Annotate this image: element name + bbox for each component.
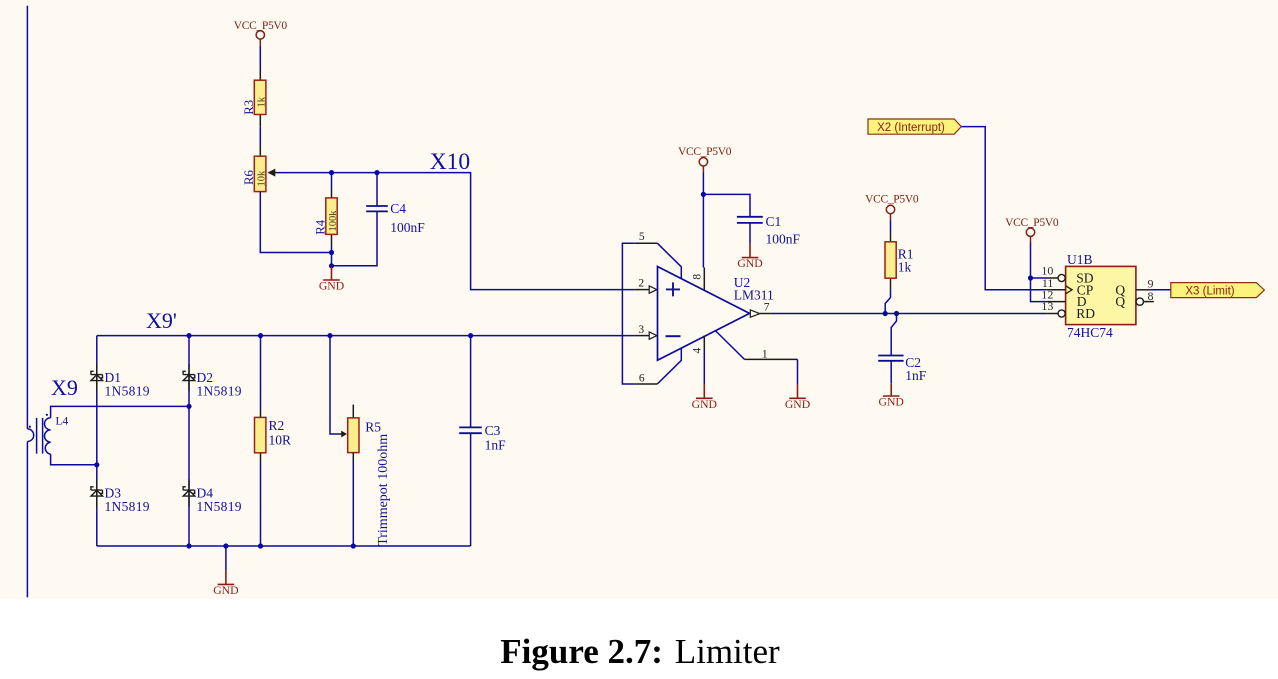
wire: output net jog down to C2	[891, 314, 896, 356]
svg-text:5: 5	[639, 231, 645, 243]
pin 4 stub	[703, 336, 705, 351]
svg-text:X9': X9'	[146, 308, 177, 333]
svg-text:8: 8	[692, 274, 704, 280]
svg-text:1nF: 1nF	[485, 438, 507, 453]
wire: pin 4 to ground	[703, 350, 705, 384]
pin 2 stub and input arrow	[635, 289, 649, 291]
potentiometer R6 10k	[259, 146, 261, 156]
svg-text:R3: R3	[242, 100, 256, 115]
resistor R1 1k	[890, 232, 892, 289]
diode D2 1N5819	[183, 364, 195, 392]
svg-text:R2: R2	[269, 418, 285, 433]
svg-text:GND: GND	[879, 396, 904, 409]
capacitor C2 1nF	[878, 356, 903, 361]
wire: X10 net from wiper to comparator pin 2	[278, 173, 635, 290]
R6 wiper arrow	[274, 172, 278, 174]
diode D3 1N5819	[91, 480, 103, 508]
pin 6 stub	[635, 383, 658, 385]
svg-text:R4: R4	[313, 219, 327, 235]
svg-text:C4: C4	[390, 201, 406, 216]
wire: VCC down to SD and D	[1031, 243, 1046, 302]
pin 10 SD stub and bubble	[1046, 277, 1058, 279]
svg-text:LM311: LM311	[734, 287, 774, 302]
ground (R4/C4)	[323, 267, 340, 281]
svg-text:X2 (Interrupt): X2 (Interrupt)	[877, 122, 945, 134]
wire: X2 to flip-flop CP	[961, 127, 1046, 290]
ground (op-amp pin 1)	[789, 384, 806, 398]
port flag X3 (Limit)	[1171, 283, 1265, 298]
svg-text:R5: R5	[365, 419, 381, 434]
wire: R3 to R6	[259, 126, 261, 146]
transformer secondary polarity dot	[46, 414, 48, 416]
op-amp plus symbol	[666, 282, 680, 296]
wire: VCC to R1	[890, 221, 892, 233]
op-amp U2 LM311	[658, 267, 750, 361]
wire: secondary top lead to bridge (net X9)	[51, 406, 189, 417]
svg-text:C1: C1	[766, 214, 782, 229]
svg-text:VCC_P5V0: VCC_P5V0	[1005, 217, 1059, 229]
svg-text:GND: GND	[319, 280, 344, 293]
ground (C2)	[883, 383, 900, 396]
pin 3 stub and input arrow	[635, 335, 649, 337]
node: SD junction	[1028, 275, 1033, 280]
ground (C1)	[742, 244, 759, 258]
wire: bridge column 1 (D1/D3)	[96, 336, 98, 546]
svg-text:1N5819: 1N5819	[197, 383, 242, 398]
pin 9 Q stub	[1136, 289, 1151, 291]
node: R4 bottom junction	[329, 250, 334, 255]
resistor R3 1k	[259, 70, 261, 126]
wire: down to C4 return junction	[331, 253, 333, 266]
svg-text:C3: C3	[485, 423, 501, 438]
resistor R4 100k	[331, 173, 333, 190]
wire: VCC to R3	[259, 46, 261, 70]
clock wedge	[1066, 286, 1072, 294]
capacitor C3 1nF	[470, 336, 472, 428]
diode D4 1N5819	[183, 480, 195, 508]
svg-text:1k: 1k	[898, 259, 912, 274]
pin 8 stub	[703, 268, 705, 291]
svg-text:VCC_P5V0: VCC_P5V0	[865, 193, 919, 205]
node: C4 return junction	[329, 263, 334, 268]
resistor R2 10R	[260, 336, 262, 409]
diode D1 1N5819	[91, 364, 103, 392]
capacitor C4 100nF	[376, 173, 378, 206]
node: C4 top junction	[374, 170, 379, 175]
svg-text:6: 6	[639, 372, 645, 384]
svg-text:100nF: 100nF	[766, 231, 801, 246]
wire: Q to X3 flag	[1150, 289, 1170, 291]
svg-text:Q: Q	[1115, 294, 1125, 309]
transformer core	[37, 418, 43, 454]
svg-text:2: 2	[638, 277, 644, 289]
wire: VCC to op-amp pin 8	[702, 173, 704, 268]
svg-text:100k: 100k	[328, 210, 339, 232]
svg-text:13: 13	[1041, 299, 1053, 313]
svg-text:Trimmepot 100ohm: Trimmepot 100ohm	[376, 434, 391, 546]
pin 7 output arrow and stub	[750, 310, 760, 317]
svg-text:R6: R6	[242, 169, 256, 185]
transformer primary winding arc (cut off at edge)	[27, 429, 33, 442]
svg-text:7: 7	[764, 302, 770, 314]
pin 1 wire and stub	[715, 331, 744, 360]
pin 12 D stub	[1046, 301, 1066, 303]
ground (bridge bottom rail)	[225, 546, 227, 571]
wire: junction to C1	[703, 194, 750, 216]
capacitor C1 100nF	[737, 217, 763, 223]
svg-text:3: 3	[638, 324, 644, 336]
wire: bottom ground rail	[97, 545, 471, 547]
svg-text:GND: GND	[692, 398, 717, 411]
wire: left sheet border vertical line	[26, 6, 28, 598]
wire: X9' rail to comparator pin 3	[97, 335, 635, 337]
wire: bridge column 2 (D2/D4)	[188, 336, 190, 546]
pin 8 Q-bar bubble and stub	[1136, 298, 1143, 305]
svg-text:RD: RD	[1076, 306, 1095, 321]
svg-text:Figure 2.7: Limiter: Figure 2.7: Limiter	[500, 632, 780, 671]
wire: R1 bottom jog to output net	[885, 289, 890, 313]
pin 13 RD stub and bubble	[1046, 313, 1058, 315]
pin 5 stub	[635, 242, 658, 244]
op-amp minus symbol	[666, 335, 681, 337]
svg-text:1: 1	[762, 349, 768, 361]
node: X9' rail junctions	[186, 333, 473, 338]
svg-text:74HC74: 74HC74	[1067, 325, 1113, 340]
svg-text:1nF: 1nF	[905, 368, 927, 383]
svg-text:1k: 1k	[257, 96, 268, 107]
pin 11 CP stub	[1046, 289, 1065, 291]
node: junction transformer bottom to D1/D3 column	[94, 462, 99, 467]
potentiometer R5 Trimmepot 100ohm	[330, 336, 339, 434]
svg-text:VCC_P5V0: VCC_P5V0	[678, 146, 732, 158]
node: junction transformer top to D2/D4 column	[186, 404, 191, 409]
svg-text:1N5819: 1N5819	[105, 499, 150, 514]
svg-text:1N5819: 1N5819	[197, 499, 242, 514]
svg-text:X10: X10	[430, 149, 470, 175]
node: wiper node junction at R4	[329, 170, 334, 175]
svg-text:GND: GND	[213, 584, 238, 597]
node: bottom rail junctions	[186, 543, 356, 548]
svg-text:8: 8	[1148, 289, 1154, 303]
wire: balance pins 5/6 bracket	[622, 243, 634, 384]
wire: secondary bottom lead to bridge midpoint	[51, 454, 97, 465]
wire: comparator output net to flip-flop RD	[770, 313, 1046, 315]
wire: junction to SD pin	[1031, 277, 1047, 279]
svg-text:GND: GND	[785, 398, 810, 411]
port flag X2 (Interrupt)	[868, 119, 961, 134]
node: VCC/C1 junction	[701, 192, 706, 197]
svg-text:GND: GND	[737, 257, 762, 270]
svg-text:X9: X9	[51, 375, 78, 400]
svg-text:100nF: 100nF	[390, 220, 425, 235]
svg-text:X3 (Limit): X3 (Limit)	[1185, 285, 1234, 297]
transformer primary polarity dot	[29, 426, 31, 428]
node: output junction C2	[894, 311, 899, 316]
svg-text:10k: 10k	[257, 170, 268, 187]
svg-text:4: 4	[692, 348, 704, 354]
ground (op-amp pin 4)	[696, 384, 713, 398]
wire: R6 bottom to R4 bottom	[260, 192, 331, 253]
svg-text:10R: 10R	[269, 432, 292, 447]
svg-text:L4: L4	[56, 415, 69, 427]
inductor L4 transformer secondary winding	[44, 418, 50, 455]
svg-text:U1B: U1B	[1067, 252, 1093, 267]
node: output junction R1	[883, 311, 888, 316]
svg-text:1N5819: 1N5819	[105, 383, 150, 398]
